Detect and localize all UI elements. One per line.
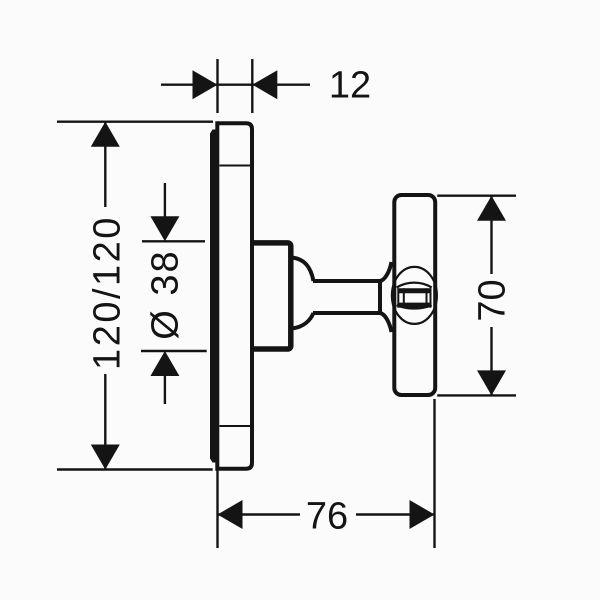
dim 12 line: [161, 83, 310, 85]
dim 12 extension lines: [216, 59, 218, 113]
arrow 120 up: [91, 122, 120, 147]
spindle window verticals: [397, 288, 399, 307]
stem top: [313, 279, 380, 283]
dim 70 line: [490, 196, 492, 274]
svg-text:120/120: 120/120: [87, 215, 129, 370]
funnel top edge: [292, 258, 314, 282]
plate inner line top: [220, 165, 251, 167]
arrow 76 right: [410, 500, 435, 529]
arrow 38 up: [150, 351, 179, 376]
dim 76 line: [218, 513, 301, 515]
arrow 12 left: [193, 70, 218, 99]
arrow 76 left: [218, 500, 243, 529]
arrow 38 down: [150, 216, 179, 241]
knob lower arc: [397, 305, 432, 308]
svg-text:70: 70: [472, 279, 514, 321]
dim 38 lines: [164, 183, 166, 218]
escutcheon: [251, 243, 291, 349]
arrow 12 right: [252, 70, 277, 99]
stem end cap: [378, 279, 382, 315]
arrow 120 down: [91, 445, 120, 470]
spindle window bottom bar: [398, 303, 432, 308]
dim 70 extension lines: [437, 194, 516, 196]
stem bottom: [313, 311, 380, 315]
wall plate outline: [217, 123, 252, 468]
dim 120/120 line: [104, 122, 106, 207]
arrow 70 up: [477, 196, 506, 221]
dim 38 ticks: [142, 240, 205, 242]
spindle window top bar: [398, 288, 432, 293]
flare bottom: [380, 313, 392, 332]
svg-text:12: 12: [329, 65, 371, 107]
arrow 70 down: [477, 370, 506, 395]
knob upper arc: [397, 283, 432, 288]
wall plate back strip: [210, 130, 218, 463]
handle bar: [394, 195, 435, 395]
funnel bottom edge: [292, 313, 314, 329]
knob circle: [392, 267, 437, 324]
plate inner line bottom: [220, 425, 251, 427]
svg-text:76: 76: [306, 496, 348, 538]
svg-text:Ø 38: Ø 38: [145, 249, 187, 339]
flare top: [380, 262, 392, 281]
dim 120/120 extension lines: [57, 120, 213, 122]
dim 76 extension lines: [216, 467, 218, 548]
